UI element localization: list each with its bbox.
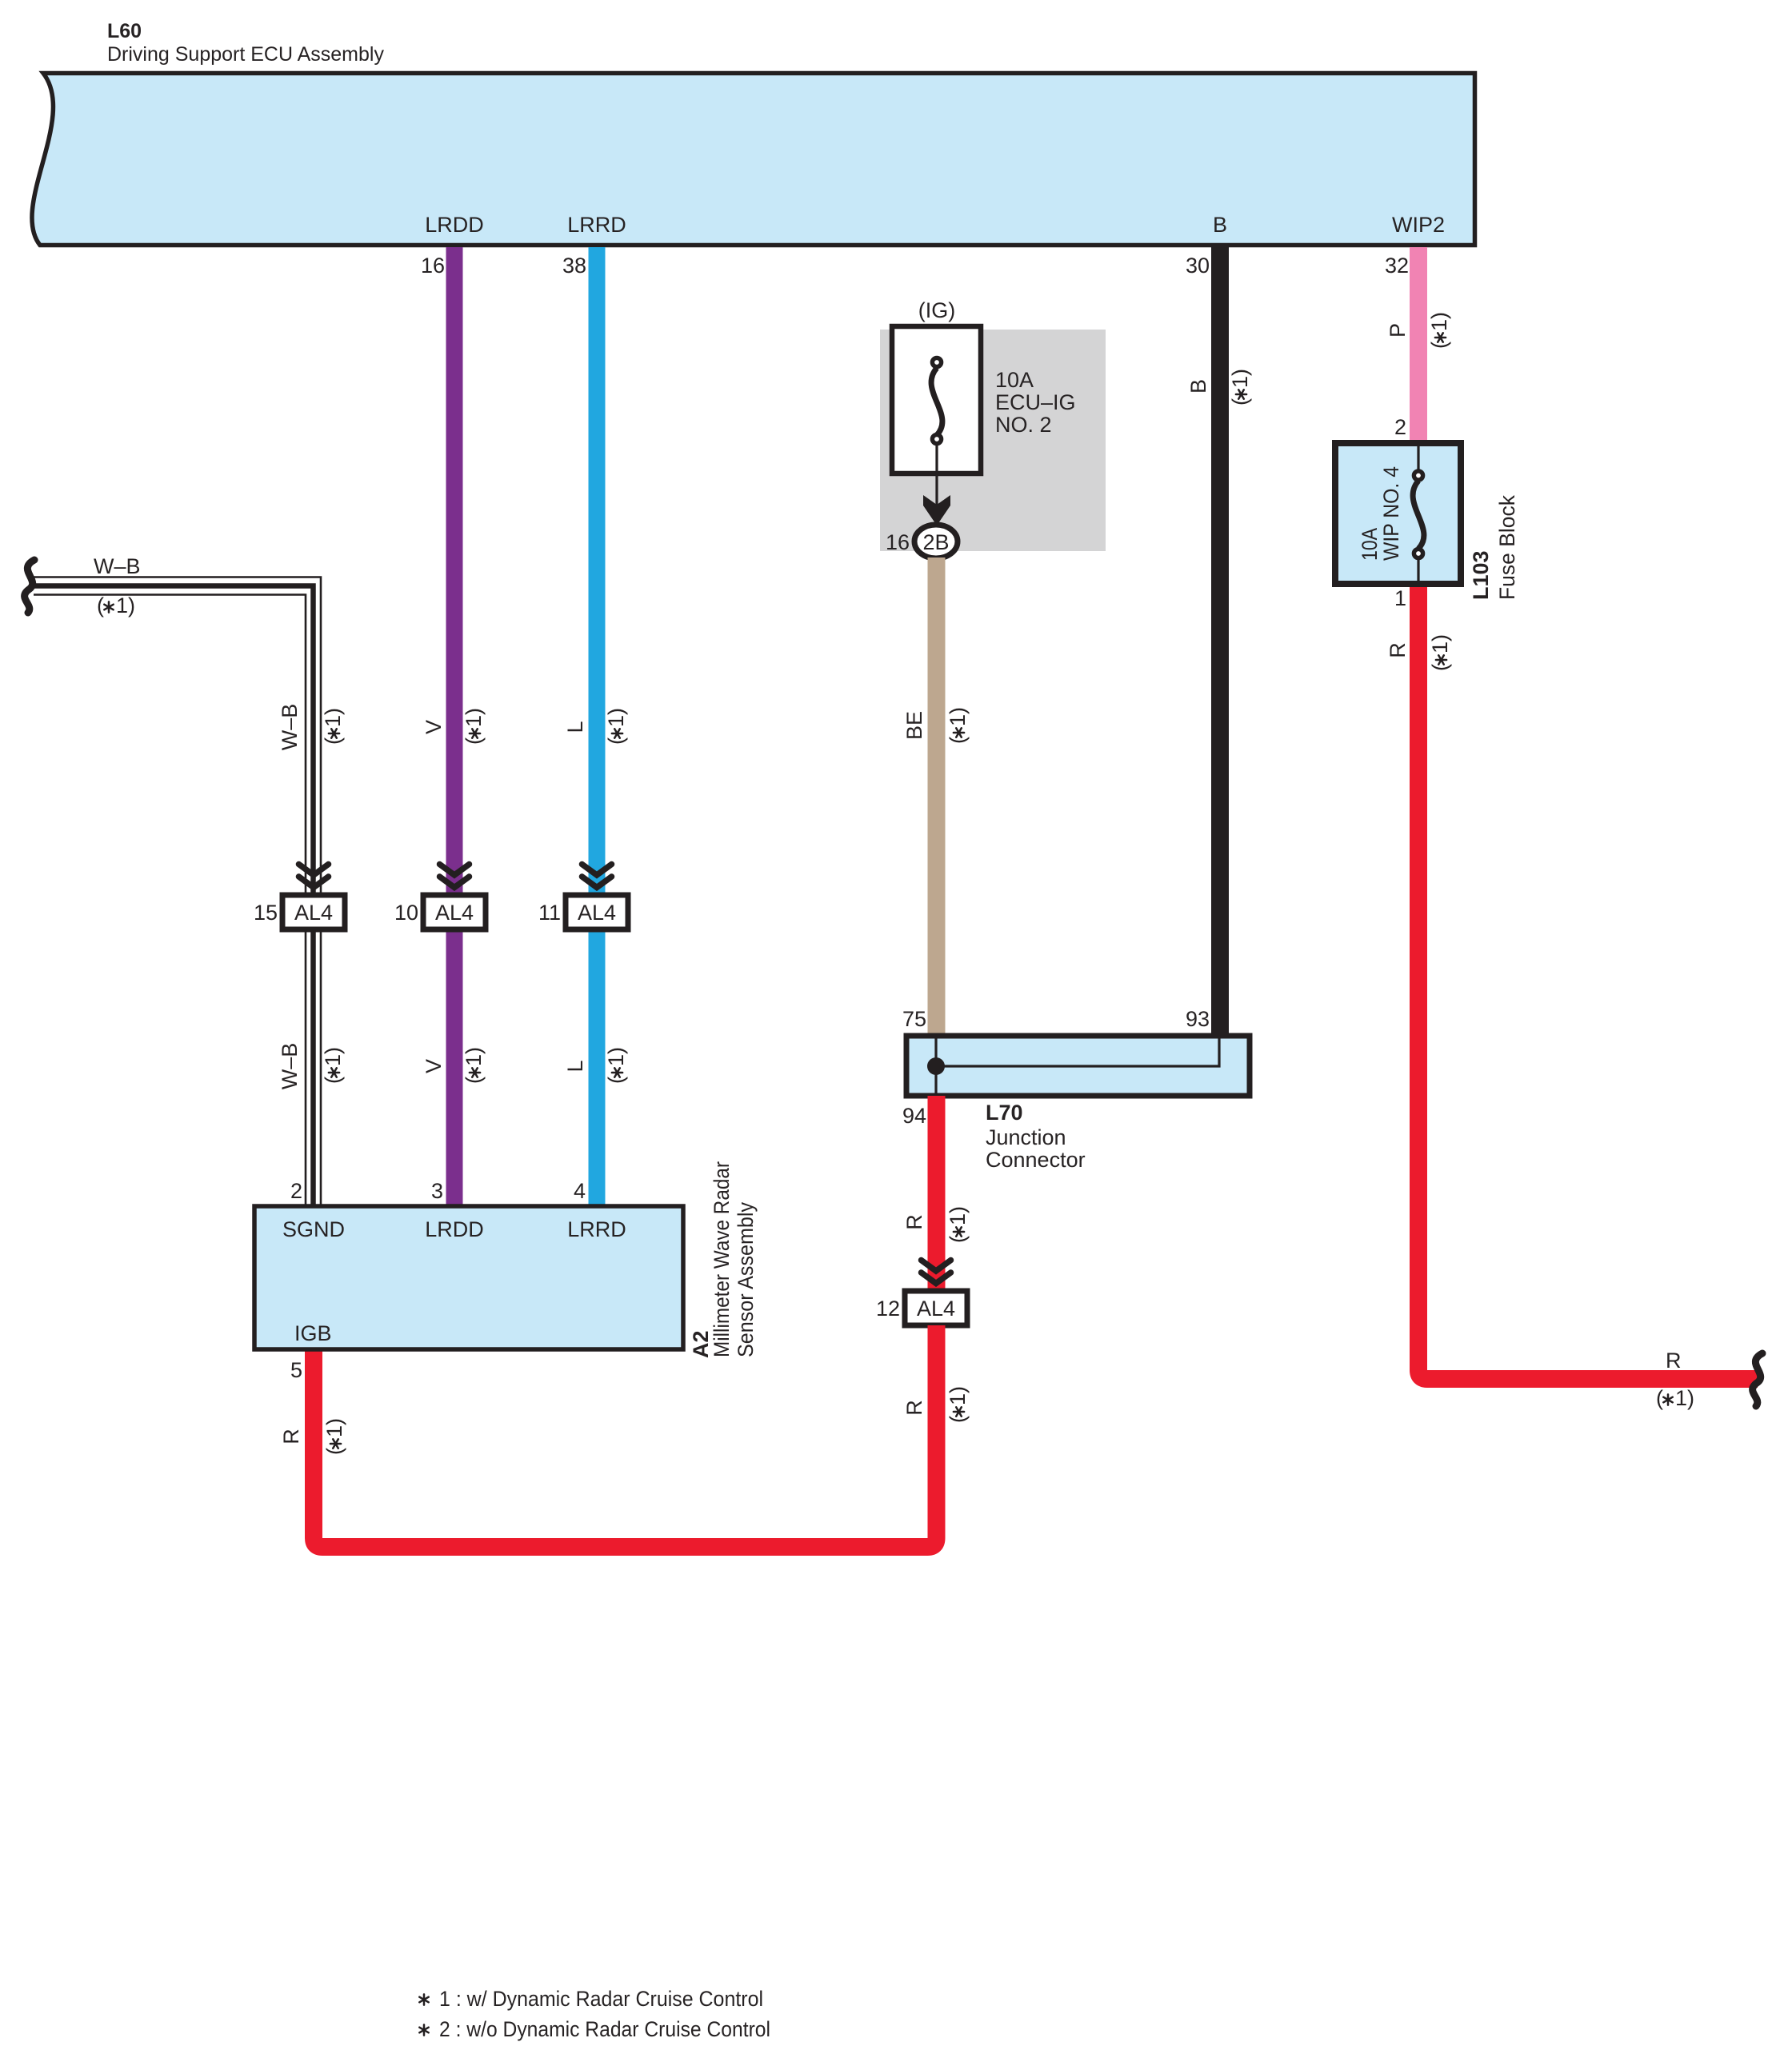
- svg-text:2: 2: [1394, 415, 1406, 439]
- fuse block L103 box: [1335, 443, 1461, 584]
- power source gray box (IG circuit): [880, 330, 1106, 551]
- svg-text:1 : w/ Dynamic Radar Cruise Co: 1 : w/ Dynamic Radar Cruise Control: [439, 1987, 763, 2011]
- svg-text:2B: 2B: [922, 530, 949, 554]
- svg-text:15: 15: [254, 901, 278, 925]
- wire W-B torn end (top left): [25, 560, 34, 613]
- wire label (*1) cyan lower: [604, 1047, 628, 1084]
- wire W-B horizontal segment center stripe: [34, 586, 314, 597]
- wire label (*1) tan wire: [946, 707, 970, 744]
- wire V (purple) L60 pin16 to AL4: [446, 247, 463, 895]
- wire L (cyan) AL4 to A2 pin4: [589, 929, 606, 1206]
- svg-text:V: V: [422, 1059, 446, 1073]
- svg-text:L: L: [563, 1060, 587, 1072]
- svg-text:38: 38: [562, 254, 586, 278]
- svg-text:NO. 2: NO. 2: [995, 413, 1052, 437]
- svg-text:B: B: [1213, 213, 1227, 237]
- svg-text:IGB: IGB: [294, 1321, 332, 1345]
- svg-text:BE: BE: [902, 711, 926, 740]
- lead from fuse to arrow: [935, 442, 938, 510]
- svg-text:5: 5: [290, 1358, 302, 1382]
- svg-text:Junction: Junction: [986, 1125, 1066, 1149]
- connector AL4 no.15: [282, 895, 345, 929]
- connector arrow into AL4 no.10: [440, 865, 470, 888]
- svg-text:75: 75: [902, 1007, 926, 1031]
- note *2: [419, 2017, 770, 2041]
- fuse ECU-IG NO.2 box: [892, 326, 981, 474]
- svg-text:16: 16: [886, 530, 910, 554]
- svg-text:L60: L60: [107, 20, 142, 42]
- svg-text:L: L: [563, 721, 587, 733]
- svg-text:L70: L70: [986, 1101, 1023, 1125]
- svg-text:2 : w/o Dynamic Radar Cruise C: 2 : w/o Dynamic Radar Cruise Control: [439, 2017, 770, 2041]
- wire R (red) L70 pin94 to AL4 no.12: [928, 1096, 946, 1291]
- svg-text:LRRD: LRRD: [567, 1217, 626, 1241]
- fuse WIP NO.4 top terminal circle: [1414, 471, 1422, 480]
- wire label (*1) red between L70 and AL4: [946, 1206, 970, 1243]
- svg-text:Millimeter Wave Radar: Millimeter Wave Radar: [710, 1161, 734, 1357]
- wire W-B horizontal segment outer bottom line: [34, 595, 306, 601]
- svg-text:4: 4: [574, 1179, 586, 1203]
- svg-text:1): 1): [116, 593, 135, 617]
- ECU L60 box (Driving Support ECU Assembly): [32, 74, 1475, 246]
- svg-text:1: 1: [1394, 586, 1406, 610]
- svg-text:2: 2: [290, 1179, 302, 1203]
- wire W-B vertical segment upper (to AL4 no.15): left line, stripe, right line: [306, 592, 321, 895]
- connector arrow into AL4 no.11: [582, 865, 612, 888]
- wire P (pink) L60 pin32 to L103 pin2: [1410, 247, 1427, 442]
- wire BE (tan) 2B to L70 pin75: [928, 557, 946, 1036]
- svg-text:16: 16: [421, 254, 445, 278]
- wire R (red) from L103 pin1 down and right to torn end: [1418, 587, 1758, 1379]
- connector AL4 no.10: [423, 895, 486, 929]
- svg-text:R: R: [1386, 642, 1410, 658]
- svg-text:(: (: [1656, 1386, 1663, 1410]
- fuse ECU-IG NO.2 top terminal circle: [932, 358, 941, 366]
- svg-text:LRDD: LRDD: [425, 213, 484, 237]
- wire label (*1) red at A2 pin5: [322, 1418, 346, 1455]
- connector AL4 no.12: [905, 1291, 967, 1325]
- node 2B oval: [914, 525, 958, 558]
- wire label (*1) red right vertical: [1428, 634, 1452, 671]
- svg-text:Fuse Block: Fuse Block: [1495, 495, 1519, 600]
- svg-text:(IG): (IG): [918, 298, 956, 322]
- connector arrow into AL4 no.12: [922, 1261, 951, 1284]
- wire label (*1) horizontal W-B: [97, 593, 135, 617]
- svg-text:V: V: [422, 720, 446, 734]
- svg-text:11: 11: [538, 901, 561, 925]
- note *1: [419, 1987, 763, 2011]
- wire label (*1) black wire: [1228, 369, 1252, 406]
- wire W-B vertical segment lower (AL4 to A2 pin2): [306, 929, 321, 1206]
- wire label (*1) cyan upper: [604, 708, 628, 745]
- svg-text:3: 3: [431, 1179, 443, 1203]
- svg-text:B: B: [1186, 379, 1210, 394]
- svg-text:W–B: W–B: [278, 704, 302, 751]
- svg-text:32: 32: [1385, 254, 1409, 278]
- svg-text:LRRD: LRRD: [567, 213, 626, 237]
- svg-text:94: 94: [902, 1104, 926, 1128]
- svg-text:Connector: Connector: [986, 1148, 1086, 1172]
- svg-text:10A: 10A: [995, 368, 1034, 392]
- fuse WIP NO.4 bottom terminal circle: [1414, 549, 1422, 557]
- L70 internal wire from junction to pin93: [936, 1038, 1219, 1066]
- junction dot in L70: [927, 1057, 945, 1075]
- wire label (*1) pink wire: [1427, 312, 1451, 349]
- svg-text:ECU–IG: ECU–IG: [995, 390, 1076, 414]
- fuse WIP NO.4 lead to pin1: [1417, 557, 1419, 582]
- svg-text:R: R: [902, 1214, 926, 1230]
- svg-text:SGND: SGND: [282, 1217, 345, 1241]
- wire label (*1) red right horizontal: [1656, 1386, 1694, 1410]
- svg-text:1): 1): [1675, 1386, 1694, 1410]
- wire label (*1) red below AL4 no.12: [946, 1386, 970, 1423]
- wire R (red) AL4 no.12 down, left, up to A2 pin5: [314, 1325, 937, 1547]
- svg-text:10: 10: [394, 901, 418, 925]
- sensor A2 box (Millimeter Wave Radar Sensor Assembly): [254, 1206, 683, 1349]
- wire label (*1) W-B upper: [321, 708, 345, 745]
- svg-text:(: (: [97, 593, 104, 617]
- fuse ECU-IG NO.2 element (S curve): [931, 368, 942, 435]
- svg-text:L103: L103: [1469, 550, 1493, 600]
- svg-text:P: P: [1386, 323, 1410, 338]
- svg-text:LRDD: LRDD: [425, 1217, 484, 1241]
- wire W-B horizontal segment outer top line: [34, 577, 321, 593]
- fuse WIP NO.4 lead from pin2: [1417, 446, 1419, 474]
- fuse WIP NO.4 element (S curve): [1413, 481, 1424, 549]
- connector arrow into AL4 no.15: [299, 865, 329, 888]
- svg-text:W–B: W–B: [94, 554, 141, 578]
- junction connector L70 box: [906, 1036, 1250, 1096]
- svg-text:R: R: [1666, 1349, 1682, 1373]
- wire R torn end (right): [1753, 1353, 1762, 1406]
- svg-text:Sensor Assembly: Sensor Assembly: [734, 1202, 758, 1357]
- L70 internal wire from pin75 to pin94: [934, 1038, 937, 1093]
- svg-text:12: 12: [876, 1297, 900, 1321]
- svg-text:WIP NO. 4: WIP NO. 4: [1379, 466, 1403, 561]
- wire B (black) L60 pin30 to L70 pin93: [1211, 247, 1229, 1036]
- fuse ECU-IG NO.2 bottom terminal circle: [932, 434, 941, 443]
- connector AL4 no.11: [566, 895, 628, 929]
- svg-text:Driving Support ECU Assembly: Driving Support ECU Assembly: [107, 43, 384, 66]
- svg-text:30: 30: [1186, 254, 1210, 278]
- svg-text:R: R: [279, 1429, 303, 1445]
- svg-text:93: 93: [1186, 1007, 1210, 1031]
- svg-text:10A: 10A: [1358, 528, 1382, 561]
- svg-text:W–B: W–B: [278, 1043, 302, 1090]
- svg-text:WIP2: WIP2: [1392, 213, 1445, 237]
- arrow into node 2B: [923, 495, 950, 525]
- svg-text:R: R: [902, 1400, 926, 1416]
- wire V (purple) AL4 to A2 pin3: [446, 929, 463, 1206]
- wire label (*1) W-B lower: [321, 1047, 345, 1084]
- wire label (*1) purple lower: [462, 1047, 486, 1084]
- wire label (*1) purple upper: [462, 708, 486, 745]
- wire L (cyan) L60 pin38 to AL4: [589, 247, 606, 895]
